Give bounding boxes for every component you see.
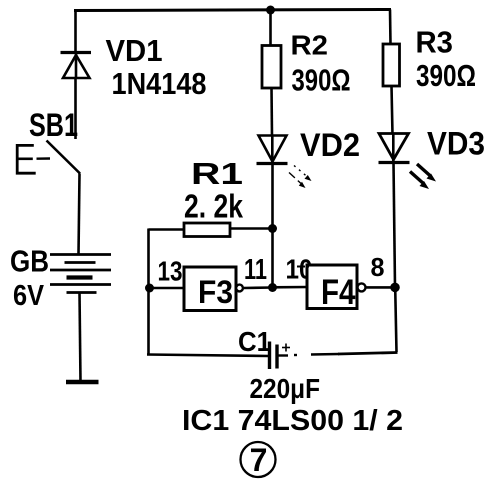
battery GB — [50, 255, 111, 293]
wire VD2 to R1 node — [271, 164, 274, 230]
svg-text:2. 2k: 2. 2k — [184, 188, 244, 225]
wire F3 output — [243, 286, 273, 289]
svg-text:8: 8 — [371, 252, 385, 282]
node F3 input junction — [145, 284, 154, 293]
wire SB1 to GB — [79, 174, 80, 255]
svg-text:GB: GB — [10, 244, 49, 279]
wire F4 top edge artifact — [297, 266, 309, 268]
label R2 value 390 ohm — [292, 63, 351, 98]
label R3 — [416, 25, 454, 60]
svg-text:7: 7 — [250, 442, 268, 478]
wire left feedback vertical — [147, 229, 150, 356]
label SB1 — [29, 107, 78, 143]
resistor R1 — [184, 223, 230, 237]
wire R3 top lead — [389, 10, 392, 45]
label IC1 74LS00 1/2 — [182, 405, 403, 437]
node F4 output junction — [390, 283, 400, 293]
gate F3 box — [184, 267, 236, 311]
svg-text:1N4148: 1N4148 — [112, 66, 207, 101]
wire bottom right — [278, 353, 398, 356]
figure number 7 — [241, 442, 276, 478]
F3 output bubble — [236, 285, 243, 292]
wire VD1 top lead — [74, 9, 77, 53]
svg-text:390Ω: 390Ω — [416, 58, 476, 93]
label pin 11 — [244, 254, 267, 286]
label R1 — [191, 156, 243, 191]
svg-text:F4: F4 — [321, 273, 356, 312]
label VD2 — [300, 127, 360, 163]
wire F4 node down — [395, 287, 396, 352]
label VD1 — [106, 33, 163, 68]
wire R1 right lead — [229, 227, 273, 230]
wire R3 to VD3 — [392, 86, 393, 135]
wire F3 input — [149, 287, 186, 290]
label pin 8 — [371, 252, 385, 282]
LED VD3 — [379, 134, 437, 190]
svg-text:R1: R1 — [191, 156, 243, 191]
label 6V — [13, 280, 45, 312]
switch SB1 — [17, 141, 80, 174]
wire R1 node to F3 output node — [271, 229, 274, 289]
wire to F4 input — [273, 286, 309, 289]
wire F4 output — [366, 286, 395, 289]
resistor R3 — [383, 44, 400, 86]
label GB — [10, 244, 49, 279]
label VD3 — [427, 126, 485, 162]
wire VD1 to SB1 — [74, 78, 77, 139]
label 220uF — [250, 373, 321, 404]
svg-text:SB1: SB1 — [29, 107, 78, 143]
svg-text:VD1: VD1 — [106, 33, 163, 68]
resistor R2 — [262, 46, 281, 89]
label C1 — [238, 326, 271, 357]
label pin 10 — [286, 254, 313, 285]
label R2 — [291, 30, 329, 61]
label R3 value 390 ohm — [416, 58, 476, 93]
svg-text:R3: R3 — [416, 25, 454, 60]
svg-text:13: 13 — [158, 256, 183, 287]
wire GB to ground — [80, 293, 81, 383]
svg-text:C1: C1 — [238, 326, 271, 357]
diode VD1 — [61, 53, 92, 79]
svg-text:F3: F3 — [198, 274, 233, 310]
label R1 value 2.2k — [184, 188, 244, 225]
svg-text:390Ω: 390Ω — [292, 63, 351, 98]
label F3 — [198, 274, 233, 310]
ground — [66, 380, 99, 385]
LED VD2 — [257, 136, 312, 189]
svg-text:VD3: VD3 — [427, 126, 485, 162]
svg-text:6V: 6V — [13, 280, 45, 312]
node F3-F4 junction — [268, 283, 277, 292]
svg-text:VD2: VD2 — [300, 127, 360, 163]
node R1 junction — [268, 224, 277, 233]
wire R1 left lead — [149, 228, 186, 231]
svg-text:11: 11 — [244, 254, 267, 286]
svg-text:R2: R2 — [291, 30, 329, 61]
wire bottom left — [147, 355, 269, 357]
wire R2 top lead — [269, 10, 272, 46]
svg-text:220μF: 220μF — [250, 373, 321, 404]
gate F4 box — [307, 265, 357, 309]
label F4 — [321, 273, 356, 312]
node top junction — [266, 6, 275, 15]
F4 output bubble — [358, 283, 366, 291]
svg-text:IC1 74LS00 1/ 2: IC1 74LS00 1/ 2 — [182, 405, 403, 437]
capacitor C1 — [270, 342, 291, 370]
wire VD3 to F4 output node — [394, 163, 396, 288]
wire top rail — [74, 10, 391, 11]
label 1N4148 — [112, 66, 207, 101]
label pin 13 — [158, 256, 183, 287]
wire R2 to VD2 — [270, 88, 273, 136]
